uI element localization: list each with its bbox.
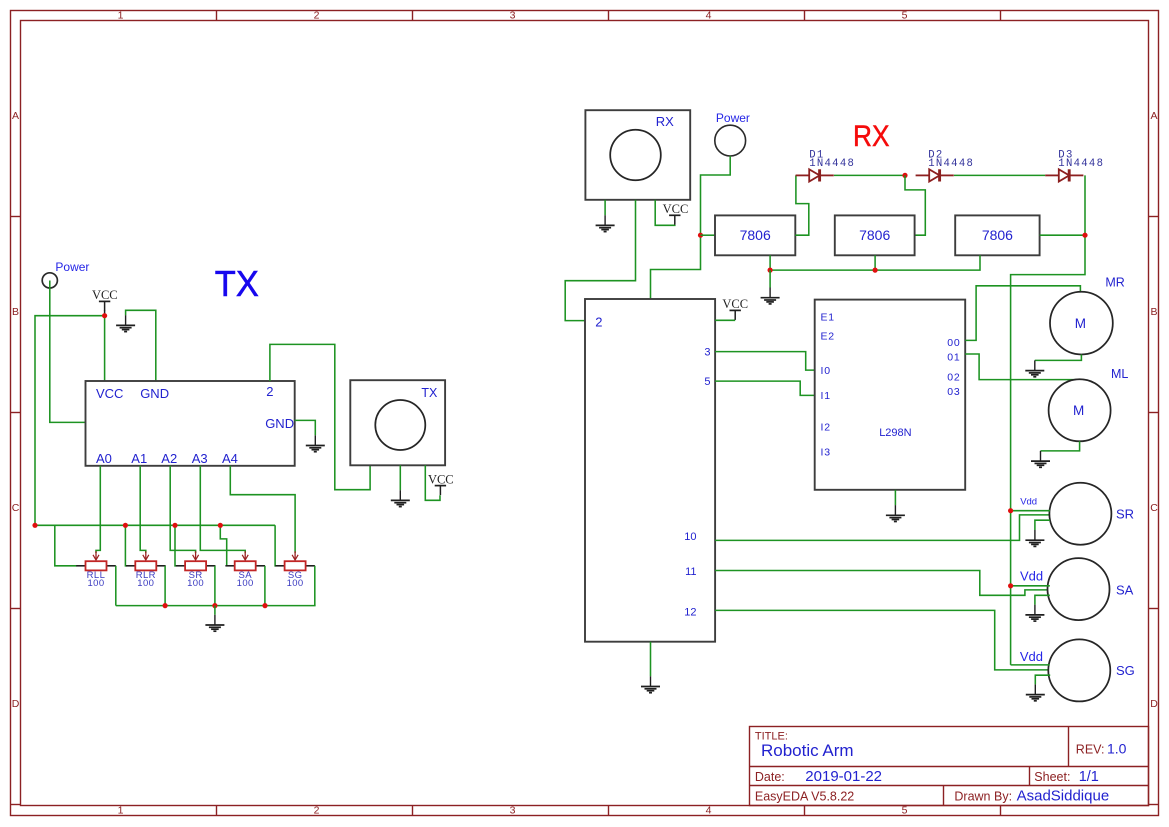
junction rail left: [32, 523, 37, 528]
servo SG: [1048, 639, 1110, 701]
svg-text:I0: I0: [821, 365, 831, 377]
svg-text:1: 1: [118, 10, 124, 22]
svg-text:7806: 7806: [740, 227, 771, 243]
wire A1 to pot RLR wiper: [140, 466, 146, 553]
wire MR bottom to ground: [1035, 355, 1082, 361]
ground (MR): [1025, 360, 1044, 376]
svg-text:100: 100: [187, 578, 204, 589]
TX module antenna circle: [375, 400, 425, 450]
potentiometer RLL: [76, 551, 116, 570]
wire MCU VCC stub: [715, 319, 735, 321]
svg-text:TX: TX: [215, 263, 259, 304]
svg-text:Date:: Date:: [755, 770, 785, 784]
svg-text:TX: TX: [421, 386, 438, 400]
wire D3 cathode down to Vdd rail: [1011, 175, 1085, 665]
wire pin11 to servo SA: [715, 571, 1050, 596]
svg-text:RX: RX: [853, 120, 890, 153]
svg-text:7806: 7806: [859, 227, 890, 243]
wire Power to regulator input and MCU top: [651, 156, 731, 300]
motor MR: [1050, 292, 1113, 355]
svg-text:Vdd: Vdd: [1020, 649, 1043, 664]
svg-text:Vdd: Vdd: [1020, 497, 1037, 508]
svg-text:A4: A4: [222, 451, 238, 466]
wire RX left pin to ground: [604, 200, 606, 215]
svg-text:GND: GND: [265, 416, 294, 431]
ground (L298N): [886, 505, 905, 521]
svg-text:D: D: [12, 698, 20, 710]
svg-text:A1: A1: [131, 451, 147, 466]
svg-text:M: M: [1073, 403, 1084, 418]
wire rail to RLR left: [125, 525, 126, 566]
svg-text:Power: Power: [55, 260, 89, 274]
svg-text:100: 100: [87, 578, 104, 589]
wire SG right to bottom rail: [314, 566, 316, 606]
diode D3: [1045, 169, 1083, 181]
svg-text:A2: A2: [161, 451, 177, 466]
ground (MCU): [641, 676, 660, 692]
wire RLR right to bottom rail: [164, 566, 166, 606]
frame column numbers bottom: [118, 804, 908, 816]
VCC power symbol (TX module): [435, 486, 446, 496]
ground (SA): [1025, 605, 1044, 621]
svg-text:AsadSiddique: AsadSiddique: [1017, 787, 1110, 804]
svg-text:MR: MR: [1105, 275, 1124, 289]
svg-text:1: 1: [118, 804, 124, 816]
svg-text:A: A: [12, 110, 19, 122]
potentiometer SA: [225, 551, 265, 570]
wire U4 output to power node: [1040, 234, 1085, 236]
svg-text:VCC: VCC: [722, 297, 748, 311]
svg-text:B: B: [12, 306, 19, 318]
svg-text:4: 4: [706, 804, 712, 816]
svg-text:B: B: [1150, 306, 1157, 318]
svg-text:I2: I2: [821, 421, 831, 433]
wire gnd rail to ground: [769, 270, 771, 287]
junction D1-D2 node: [902, 173, 907, 178]
power port P1 (TX): [42, 273, 57, 288]
RX module antenna circle: [610, 130, 661, 181]
wire A0 to pot RLL wiper: [96, 466, 100, 553]
svg-text:VCC: VCC: [92, 288, 118, 302]
wire D1 cathode to node: [834, 174, 905, 176]
diode D2: [916, 169, 954, 181]
potentiometer RLR: [126, 551, 166, 570]
svg-text:10: 10: [684, 531, 696, 543]
junction Power node: [698, 233, 703, 238]
VCC power symbol (TX top): [99, 301, 110, 311]
svg-text:12: 12: [684, 607, 696, 619]
junction RLR: [123, 523, 128, 528]
svg-text:2: 2: [314, 10, 320, 22]
wire SA gnd pin: [1035, 595, 1050, 604]
wire node to U3 output: [905, 175, 925, 235]
svg-text:2: 2: [595, 314, 602, 329]
svg-text:1N4448: 1N4448: [809, 158, 855, 170]
svg-text:Vdd: Vdd: [1020, 568, 1043, 583]
svg-text:1/1: 1/1: [1079, 769, 1099, 785]
junction bottom rail 3: [262, 603, 267, 608]
wire pin2 to TX module: [270, 344, 370, 489]
svg-text:VCC: VCC: [428, 473, 454, 487]
wire VCC rail of pots: [35, 524, 275, 526]
svg-text:100: 100: [137, 578, 154, 589]
svg-text:E2: E2: [821, 330, 835, 342]
junction Vdd SA: [1008, 583, 1013, 588]
wire regulator ground rail: [770, 255, 980, 270]
svg-text:5: 5: [704, 376, 710, 388]
svg-text:1N4448: 1N4448: [928, 158, 974, 170]
junction at VCC node: [102, 313, 107, 318]
svg-text:E1: E1: [821, 311, 835, 323]
servo SA: [1048, 558, 1110, 620]
wire Power to IC left pin: [50, 281, 86, 423]
svg-text:2019-01-22: 2019-01-22: [805, 768, 882, 785]
svg-text:C: C: [12, 502, 20, 514]
ground (IC right): [306, 435, 325, 451]
ground (TX top): [116, 315, 135, 331]
frame row letters right: [1150, 110, 1158, 710]
wire RX right pin to VCC: [655, 200, 675, 226]
svg-text:REV:: REV:: [1076, 743, 1105, 757]
wire IC GND pin to ground: [126, 310, 156, 381]
title block texts: [755, 731, 1105, 804]
servo SR: [1049, 483, 1111, 545]
svg-text:GND: GND: [140, 386, 169, 401]
power port P2 (RX): [715, 125, 746, 156]
ground (TX module): [391, 490, 410, 506]
regulator U3 7806: [835, 215, 915, 255]
wire MCU bottom pin to ground: [650, 642, 652, 677]
IC U1 (TX controller): [86, 381, 295, 466]
potentiometer SR: [176, 551, 216, 570]
wire Vdd rail to SR top pin: [1011, 510, 1050, 512]
svg-text:C: C: [1150, 502, 1158, 514]
ground (ML): [1031, 451, 1050, 467]
svg-text:SR: SR: [1116, 506, 1134, 521]
junction bottom rail 2: [212, 603, 217, 608]
svg-text:Drawn By:: Drawn By:: [954, 789, 1012, 803]
wire 01 to motor ML: [965, 354, 1079, 380]
svg-text:I3: I3: [821, 447, 831, 459]
wire SR gnd pin: [1035, 520, 1050, 530]
wire ML bottom to ground: [1041, 441, 1080, 451]
svg-text:SA: SA: [1116, 583, 1134, 598]
svg-text:M: M: [1075, 316, 1086, 331]
svg-text:00: 00: [947, 337, 960, 349]
wire rail corner to SG left: [274, 525, 277, 566]
wire SG gnd pin: [1035, 675, 1050, 684]
ground (RX module): [596, 215, 615, 231]
junction regulator gnd 2: [873, 268, 878, 273]
wire U2 output to D1 anode: [795, 175, 809, 235]
ground (regulators): [761, 288, 780, 304]
svg-text:02: 02: [947, 372, 960, 384]
svg-text:EasyEDA V5.8.22: EasyEDA V5.8.22: [755, 789, 854, 803]
potentiometer SG: [275, 551, 315, 570]
wire L298N bottom pin: [894, 490, 896, 505]
wire RLL right to bottom rail: [115, 566, 117, 606]
svg-text:7806: 7806: [982, 227, 1013, 243]
wire TX module mid pin to ground: [399, 465, 401, 490]
svg-text:3: 3: [510, 10, 516, 22]
svg-text:4: 4: [706, 10, 712, 22]
diode D1: [796, 169, 834, 181]
wire to 7806 U2 input: [701, 234, 716, 236]
wire A2 to pot SR wiper: [170, 466, 195, 553]
svg-text:01: 01: [947, 351, 960, 363]
svg-text:VCC: VCC: [96, 386, 123, 401]
ground (SR): [1025, 530, 1044, 546]
wire pin10 to servo SR: [715, 515, 1050, 541]
VCC power symbol (RX module): [669, 215, 680, 225]
wire Vdd rail to SA top pin: [1011, 585, 1050, 587]
svg-text:D: D: [1150, 698, 1158, 710]
wire GND bottom rail: [116, 605, 316, 607]
svg-text:A0: A0: [96, 451, 112, 466]
MCU U5: [585, 299, 715, 642]
wire pin5 to I1: [715, 381, 815, 395]
svg-text:A: A: [1150, 110, 1157, 122]
svg-text:L298N: L298N: [879, 427, 911, 439]
wire bottom rail to ground: [214, 606, 216, 615]
wire SR right to bottom rail: [214, 566, 216, 606]
svg-text:3: 3: [510, 804, 516, 816]
wire RX mid pin to MCU left pin: [565, 200, 635, 321]
regulator U2 7806: [715, 215, 795, 255]
ground (SG): [1026, 684, 1045, 700]
wire TX module right pin to VCC: [425, 465, 440, 500]
wire A3 to pot SA wiper: [200, 466, 245, 553]
wire SA right to bottom rail: [264, 566, 266, 606]
junction regulator gnd 1: [768, 268, 773, 273]
frame column numbers top: [118, 10, 908, 22]
svg-text:5: 5: [902, 804, 908, 816]
title block: [750, 727, 1149, 806]
RX RF module: [585, 110, 690, 200]
wire IC GND right: [295, 420, 316, 435]
svg-text:1N4448: 1N4448: [1058, 158, 1104, 170]
svg-text:RX: RX: [656, 114, 674, 129]
wire rail to SR left: [175, 525, 176, 566]
wire U3 bottom pin: [874, 255, 876, 270]
junction SR: [172, 523, 177, 528]
wire D2 cathode to D3 anode: [954, 174, 1045, 176]
svg-text:Power: Power: [716, 111, 750, 125]
svg-text:100: 100: [237, 578, 254, 589]
svg-text:I1: I1: [821, 390, 831, 402]
VCC power symbol (MCU): [730, 310, 741, 320]
svg-text:11: 11: [685, 566, 696, 578]
driver U6 L298N: [815, 300, 966, 490]
junction bottom rail 1: [163, 603, 168, 608]
wire 00 to motor MR: [965, 286, 1080, 341]
wire rail to RLL left: [55, 525, 77, 566]
wire pin3 to I0: [715, 352, 815, 371]
wire A4 to pot SG wiper: [230, 466, 295, 553]
svg-text:5: 5: [902, 10, 908, 22]
svg-text:2: 2: [266, 384, 273, 399]
svg-text:3: 3: [704, 347, 710, 359]
TX RF module: [350, 380, 445, 465]
svg-text:100: 100: [287, 578, 304, 589]
wire pin12 to servo SG: [715, 610, 1050, 670]
frame row letters left: [12, 110, 20, 710]
junction SA: [218, 523, 223, 528]
regulator U4 7806: [955, 215, 1039, 255]
svg-text:Sheet:: Sheet:: [1034, 770, 1070, 784]
motor ML: [1049, 379, 1111, 441]
svg-text:A3: A3: [192, 451, 208, 466]
wire rail to SA left: [220, 525, 226, 566]
wire Vdd rail to SG top pin: [1011, 664, 1050, 666]
svg-text:Robotic Arm: Robotic Arm: [761, 741, 854, 760]
svg-text:VCC: VCC: [663, 202, 689, 216]
junction Vdd SR: [1008, 508, 1013, 513]
junction U4 output node: [1082, 233, 1087, 238]
svg-text:ML: ML: [1111, 367, 1128, 381]
wire VCC rail top: [35, 316, 105, 526]
svg-text:SG: SG: [1116, 663, 1135, 678]
svg-text:2: 2: [314, 804, 320, 816]
svg-text:03: 03: [947, 386, 960, 398]
ground (pot rail): [205, 615, 224, 631]
svg-text:1.0: 1.0: [1107, 741, 1127, 757]
